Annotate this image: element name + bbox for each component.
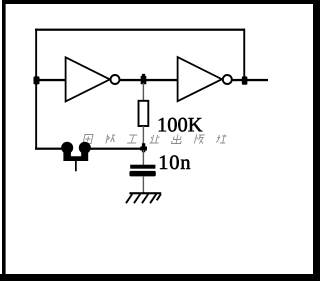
watermark 国防工业出版社 (83, 135, 227, 144)
resistor R 100K body (139, 101, 149, 126)
wire: bottom right segment (84, 148, 144, 150)
inverter U1 output bubble (111, 75, 120, 84)
wire: left vertical (35, 29, 37, 150)
terminal plug left (61, 142, 73, 154)
resistor lead top (143, 83, 144, 102)
wire: U1 out to U2 in (120, 79, 178, 81)
inverter U2 output bubble (223, 75, 232, 84)
junction node D (cap tap) (140, 143, 147, 152)
capacitor C 10n plate top (130, 165, 155, 169)
ground bar (129, 192, 161, 194)
junction node C (feedback) (242, 76, 248, 84)
ground hatch 5 (157, 194, 161, 200)
junction node B (resistor tap) (141, 74, 147, 84)
wire: input segment (35, 79, 66, 81)
ground hatch 2 (134, 194, 140, 203)
label 10n (160, 155, 190, 169)
wire: feedback top (35, 29, 245, 31)
ground hatch 3 (142, 194, 148, 203)
terminal plug right (79, 142, 91, 154)
ground hatch 1 (126, 194, 132, 203)
resistor lead bottom (143, 126, 144, 145)
terminal bracket (U shape) (63, 150, 88, 162)
inverter U2 triangle (178, 57, 222, 101)
junction node A (input) (34, 76, 40, 84)
capacitor C 10n plate bottom (129, 171, 155, 177)
ground hatch 4 (150, 194, 156, 203)
label 100K (159, 118, 203, 132)
capacitor lead bottom (143, 176, 144, 193)
inverter U1 triangle (66, 57, 110, 101)
wire: feedback vertical (243, 29, 245, 79)
capacitor lead top (143, 150, 144, 166)
wire: bottom left segment (35, 148, 68, 150)
wire: output stub (232, 79, 268, 81)
terminal stub down (75, 161, 77, 171)
